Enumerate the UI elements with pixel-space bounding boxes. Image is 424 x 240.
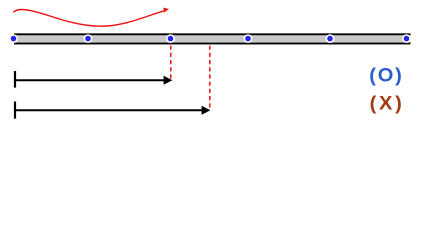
gray bar with black top/bottom borders	[14, 33, 411, 44]
svg-text:(X): (X)	[370, 93, 405, 115]
label (O)	[369, 65, 403, 87]
node dot 1	[10, 35, 17, 42]
label (X)	[370, 93, 405, 115]
red dashed guide line 2	[209, 46, 211, 108]
measurement arrow 1	[14, 71, 172, 88]
node dot 6	[403, 35, 410, 42]
node dot 2	[84, 35, 91, 42]
red dashed guide line 1	[170, 46, 172, 79]
node dot 5	[326, 35, 333, 42]
node dot 3	[167, 35, 174, 42]
measurement arrow 2	[14, 102, 210, 119]
node dot 4	[244, 35, 251, 42]
red freehand curve with arrowhead	[13, 8, 169, 27]
svg-text:(O): (O)	[369, 65, 403, 87]
